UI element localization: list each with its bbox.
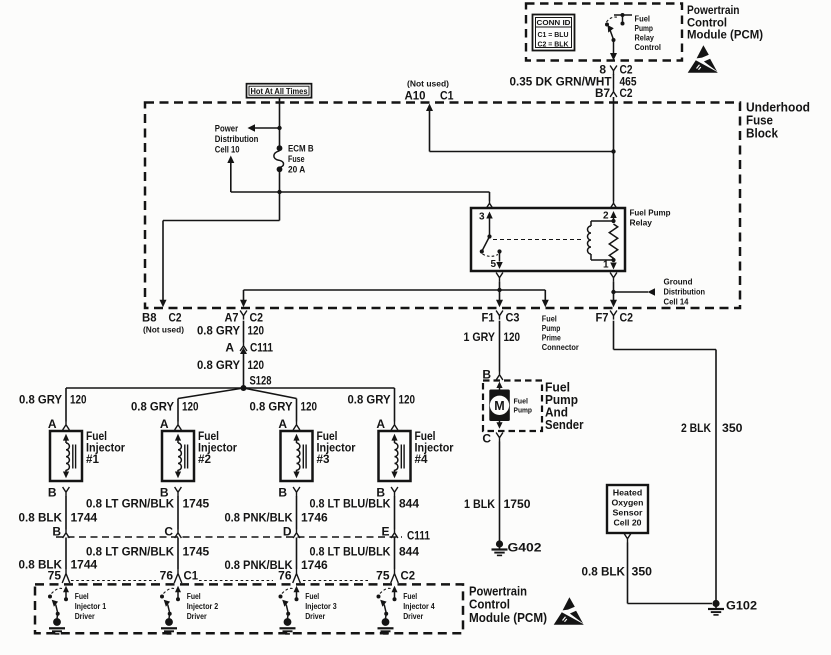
branch wire injector 4: [394, 388, 396, 422]
svg-text:C: C: [482, 432, 491, 446]
connector D at C111: [283, 525, 300, 539]
ground G102: [708, 599, 757, 615]
junction dot ground distribution: [611, 290, 615, 294]
wire pin5 to F1: [499, 282, 501, 301]
svg-text:Pump: Pump: [542, 324, 561, 333]
svg-text:0.8 GRY: 0.8 GRY: [250, 400, 293, 414]
svg-text:Block: Block: [746, 127, 778, 141]
svg-text:Hot At All Times: Hot At All Times: [251, 86, 308, 96]
arrow up to Power Distribution: [227, 156, 234, 193]
svg-text:0.8 LT GRN/BLK: 0.8 LT GRN/BLK: [86, 497, 174, 511]
svg-text:1: 1: [603, 260, 609, 271]
svg-text:Fuel: Fuel: [635, 15, 651, 24]
C111 dashed connector line: [56, 536, 402, 538]
svg-text:C1: C1: [440, 89, 454, 103]
Underhood Fuse Block title: [746, 101, 810, 141]
1 GRY 120 label: [464, 330, 521, 344]
svg-text:Driver: Driver: [187, 612, 207, 621]
Powertrain Control Module (PCM) title bottom: [469, 585, 547, 626]
PCM connector face dotted line: [71, 580, 368, 582]
A7 connector Y: [240, 311, 247, 320]
F1 C3 labels: [482, 311, 520, 325]
svg-text:1745: 1745: [183, 545, 210, 559]
wire A7 to C111: [243, 321, 245, 343]
svg-text:#1: #1: [86, 452, 99, 466]
svg-text:0.8 PNK/BLK: 0.8 PNK/BLK: [225, 511, 293, 525]
svg-text:0.8 GRY: 0.8 GRY: [197, 358, 240, 372]
svg-text:Pump: Pump: [635, 24, 654, 33]
wire from Hot At All Times down: [279, 98, 281, 146]
svg-text:Fuel: Fuel: [187, 592, 201, 601]
connector A injector 3: [278, 417, 300, 431]
Fuel Injector #1 label: [86, 429, 125, 466]
connector B at C111: [52, 525, 69, 539]
relay pin 2 arrow: [610, 211, 617, 223]
svg-text:F7: F7: [596, 311, 609, 325]
splice bus horizontal: [66, 387, 395, 389]
svg-text:(Not used): (Not used): [143, 326, 184, 335]
svg-text:S128: S128: [250, 374, 272, 388]
junction dot A10/B7: [611, 149, 615, 153]
svg-text:C111: C111: [250, 341, 273, 355]
F7 connector Y: [610, 311, 617, 320]
power distribution callout arrow: [248, 124, 280, 132]
svg-text:120: 120: [248, 358, 265, 372]
svg-text:G102: G102: [726, 599, 757, 613]
switched feed line A7 to prime: [244, 290, 546, 301]
Fuel Injector 2 Driver label: [187, 592, 219, 621]
connector B7 C2 labels: [595, 86, 633, 100]
fuel pump relay control driver (switch) in PCM: [605, 13, 632, 61]
svg-text:A: A: [376, 417, 385, 431]
F7 arrow: [610, 300, 617, 308]
svg-text:844: 844: [399, 497, 419, 511]
wire injector 3 to C111: [296, 496, 298, 530]
Heated Oxygen Sensor Cell 20 box: [607, 485, 648, 533]
wire label 0.8 BLK 1744 upper: [19, 511, 98, 525]
B8 C2 (Not used) labels: [142, 313, 184, 335]
wire label 0.8 PNK/BLK 1746 lower: [225, 558, 329, 572]
svg-text:350: 350: [632, 565, 653, 579]
fuel injector box #4: [379, 431, 411, 481]
connector E at C111: [381, 525, 397, 539]
fuel injector 1 driver: [48, 586, 69, 634]
svg-text:0.8 BLK: 0.8 BLK: [19, 511, 63, 525]
svg-text:844: 844: [399, 545, 419, 559]
Fuel Injector #2 label: [198, 429, 237, 466]
svg-text:C2: C2: [620, 311, 634, 325]
svg-text:0.8 GRY: 0.8 GRY: [19, 393, 62, 407]
wire fuse to feed line: [279, 167, 281, 192]
svg-text:Fuel: Fuel: [305, 592, 319, 601]
wire HO2S to ground junction: [628, 543, 713, 604]
connector Y at pin 8: [610, 66, 617, 75]
svg-text:1 GRY: 1 GRY: [464, 330, 496, 344]
A7 arrow: [240, 300, 247, 308]
wire F7 to G102: [614, 321, 717, 601]
relay pin 5 arrow: [496, 252, 503, 270]
wire C111 to S128: [243, 352, 245, 388]
PCM bottom dashed box: [35, 584, 463, 633]
svg-text:Pump: Pump: [514, 406, 533, 415]
svg-text:Fuel: Fuel: [403, 592, 417, 601]
svg-text:Oxygen: Oxygen: [612, 498, 644, 508]
svg-text:A: A: [278, 417, 287, 431]
svg-text:Control: Control: [635, 43, 662, 52]
svg-text:C2 = BLK: C2 = BLK: [538, 39, 570, 48]
pin 75 connector injector 1: [48, 569, 70, 584]
wire label 0.8 LT BLU/BLK 844 upper: [310, 497, 420, 511]
svg-text:Injector 1: Injector 1: [75, 602, 107, 611]
0.8 GRY 120 label lower: [197, 358, 264, 372]
svg-text:Sensor: Sensor: [613, 508, 644, 518]
svg-text:0.8 LT BLU/BLK: 0.8 LT BLU/BLK: [310, 545, 391, 559]
branch wire injector 3: [244, 388, 297, 422]
svg-text:Fuel: Fuel: [514, 397, 529, 406]
junction dot power distribution: [277, 126, 281, 130]
wire injector 1 to C111: [65, 496, 67, 530]
Underhood Fuse Block dashed box: [145, 103, 740, 309]
connector C at C111: [164, 525, 181, 539]
junction dot switched feed: [497, 288, 501, 292]
svg-text:Injector 4: Injector 4: [403, 602, 435, 611]
svg-text:Connector: Connector: [542, 343, 579, 352]
0.8 GRY 120 label injector 1: [19, 393, 87, 407]
relay switch arm pin 3: [480, 212, 493, 254]
wire B7 down to relay pin 2: [613, 97, 615, 201]
wire label 0.8 BLK 1744 lower: [19, 558, 98, 572]
A7 C2 labels: [225, 311, 264, 325]
A10 arrow (not used): [426, 104, 614, 152]
relay coil: [588, 221, 618, 260]
svg-text:Injector 2: Injector 2: [187, 602, 219, 611]
svg-text:C1 = BLU: C1 = BLU: [538, 30, 569, 39]
wire PCM to B7: [613, 74, 615, 89]
connector B injector 3: [278, 486, 300, 500]
svg-text:Control: Control: [469, 598, 510, 612]
svg-text:#4: #4: [415, 452, 428, 466]
connector A injector 4: [376, 417, 398, 431]
svg-text:C111: C111: [407, 529, 430, 543]
0.8 BLK 350 label: [582, 565, 653, 579]
2 BLK 350 label: [681, 421, 743, 435]
svg-text:Module (PCM): Module (PCM): [687, 28, 763, 42]
svg-text:Fuse: Fuse: [288, 154, 305, 164]
wire label 0.8 LT GRN/BLK 1745 upper: [86, 497, 210, 511]
svg-text:ECM B: ECM B: [288, 144, 314, 154]
svg-text:C2: C2: [401, 569, 416, 583]
svg-text:1745: 1745: [183, 497, 210, 511]
svg-text:M: M: [494, 399, 504, 413]
svg-text:#2: #2: [198, 452, 211, 466]
svg-text:C2: C2: [169, 313, 182, 325]
fuel injector box #3: [281, 431, 313, 481]
F1 arrow: [496, 300, 503, 308]
Fuel Pump small label in box: [514, 397, 533, 415]
svg-text:Relay: Relay: [630, 218, 653, 228]
fuel injector 4 driver: [377, 586, 398, 634]
relay switch travel dashed arc: [483, 254, 499, 256]
Fuel Pump Prime Connector label: [542, 315, 579, 353]
svg-text:C3: C3: [506, 311, 520, 325]
svg-text:(Not used): (Not used): [407, 80, 449, 89]
svg-text:A: A: [225, 341, 234, 355]
connector B at pump: [482, 368, 503, 382]
Fuel Pump Relay label: [630, 208, 671, 228]
wire label 0.8 LT GRN/BLK 1745 lower: [86, 545, 210, 559]
svg-text:Injector 3: Injector 3: [305, 602, 337, 611]
Fuel Injector 4 Driver label: [403, 592, 435, 621]
svg-text:Fuel Pump: Fuel Pump: [630, 208, 671, 218]
svg-text:C1: C1: [184, 569, 199, 583]
svg-text:CONN ID: CONN ID: [537, 18, 572, 27]
S128 splice dot: [241, 385, 247, 391]
fuel injector #2 coil symbol: [175, 434, 188, 479]
svg-text:C2: C2: [620, 86, 633, 100]
0.8 GRY 120 label injector 4: [348, 393, 416, 407]
svg-text:Cell 10: Cell 10: [215, 145, 240, 155]
wire injector 2 to C111: [177, 496, 179, 530]
svg-text:1744: 1744: [71, 511, 98, 525]
fuel pump relay box: [471, 208, 625, 271]
connector B injector 4: [376, 486, 398, 500]
svg-text:Module (PCM): Module (PCM): [469, 611, 547, 625]
A C111 in-line connector: [240, 343, 247, 355]
relay control dashed line: [493, 239, 584, 241]
branch wire injector 1: [65, 388, 67, 422]
Fuel Injector 3 Driver label: [305, 592, 337, 621]
svg-text:0.8 LT GRN/BLK: 0.8 LT GRN/BLK: [86, 545, 174, 559]
ESD warning logo bottom: [554, 597, 584, 625]
fuel pump dashed box: [483, 381, 542, 432]
svg-text:1746: 1746: [301, 511, 328, 525]
F1 connector Y: [496, 311, 503, 320]
svg-text:Driver: Driver: [75, 612, 95, 621]
wire C111 to PCM pin injector 1: [65, 538, 67, 570]
relay pin 1 arrow: [610, 258, 617, 270]
prime connector arrow: [542, 300, 549, 308]
svg-text:Fuel: Fuel: [75, 592, 89, 601]
svg-text:Fuel: Fuel: [542, 315, 557, 324]
svg-text:Driver: Driver: [305, 612, 325, 621]
svg-text:Power: Power: [215, 124, 239, 134]
wire C111 to PCM pin injector 3: [296, 538, 298, 570]
branch wire injector 2: [178, 388, 244, 422]
feed line to relay pin 3: [231, 192, 490, 201]
svg-text:A: A: [48, 417, 57, 431]
svg-text:0.8 BLK: 0.8 BLK: [582, 565, 626, 579]
wire pump C to G402: [499, 442, 501, 541]
svg-text:20 A: 20 A: [288, 165, 306, 175]
relay pin 1 bottom connector: [610, 273, 617, 282]
svg-text:C2: C2: [250, 311, 264, 325]
svg-text:B8: B8: [142, 313, 157, 325]
fuel injector 3 driver: [279, 586, 300, 634]
svg-text:120: 120: [248, 324, 265, 338]
A C111 labels: [225, 341, 273, 355]
svg-text:Underhood: Underhood: [746, 101, 810, 115]
svg-text:76: 76: [160, 569, 174, 583]
svg-text:0.8 GRY: 0.8 GRY: [131, 400, 174, 414]
svg-text:A: A: [160, 417, 169, 431]
0.8 GRY 120 label upper: [197, 324, 264, 338]
Fuel Pump And Sender label: [545, 381, 584, 433]
fuel injector 2 driver: [160, 586, 181, 634]
pin 75 connector injector 4: [376, 569, 415, 584]
svg-text:120: 120: [504, 330, 521, 344]
fuel injector #1 coil symbol: [63, 434, 76, 479]
svg-text:Cell 20: Cell 20: [614, 518, 642, 528]
svg-text:120: 120: [182, 400, 199, 414]
svg-text:B7: B7: [595, 86, 610, 100]
svg-text:Prime: Prime: [542, 334, 561, 343]
Fuel Injector #3 label: [317, 429, 356, 466]
wire label 0.8 PNK/BLK 1746 upper: [225, 511, 329, 525]
svg-text:120: 120: [399, 393, 416, 407]
Fuel Pump Relay Control label: [635, 15, 662, 53]
connector B injector 1: [48, 486, 70, 500]
connector A injector 1: [48, 417, 70, 431]
pin 76 connector injector 3: [278, 569, 300, 584]
F7 C2 labels: [596, 311, 634, 325]
CONN ID legend box: [533, 15, 575, 51]
connector below HO2S box: [624, 534, 631, 543]
fuel pump motor: [489, 382, 510, 429]
svg-text:0.8 GRY: 0.8 GRY: [197, 324, 240, 338]
svg-text:B: B: [48, 486, 57, 500]
wire injector 4 to C111: [394, 496, 396, 530]
Power Distribution Cell 10 label: [215, 124, 259, 155]
0.8 GRY 120 label injector 3: [250, 400, 318, 414]
wire label 0.8 LT BLU/BLK 844 lower: [310, 545, 420, 559]
svg-text:2: 2: [603, 211, 609, 222]
svg-text:75: 75: [376, 569, 390, 583]
svg-text:75: 75: [48, 569, 62, 583]
Hot At All Times box: [247, 84, 312, 98]
connector B injector 2: [160, 486, 182, 500]
svg-text:Powertrain: Powertrain: [469, 585, 527, 599]
wire C111 to PCM pin injector 2: [177, 538, 179, 570]
fuel injector box #2: [162, 431, 194, 481]
fuel injector box #1: [50, 431, 82, 481]
svg-text:Heated: Heated: [613, 488, 643, 498]
svg-text:B: B: [278, 486, 287, 500]
svg-text:Distribution: Distribution: [664, 287, 706, 297]
Fuel Injector #4 label: [415, 429, 454, 466]
wire pin1 to F7: [613, 282, 615, 301]
fuel injector #4 coil symbol: [391, 434, 404, 479]
pin 76 connector injector 2: [160, 569, 199, 584]
svg-text:350: 350: [722, 421, 743, 435]
connector at B7: [610, 89, 617, 98]
ECM B Fuse 20 A label: [288, 144, 314, 175]
fuel injector #3 coil symbol: [293, 434, 306, 479]
svg-text:0.8 LT BLU/BLK: 0.8 LT BLU/BLK: [310, 497, 391, 511]
svg-text:Sender: Sender: [545, 418, 584, 432]
connector C below pump: [482, 432, 503, 446]
svg-text:120: 120: [70, 393, 87, 407]
svg-text:A10: A10: [405, 89, 426, 103]
ground distribution callout: [614, 288, 656, 296]
relay switch contact dot pin 5: [497, 249, 501, 253]
relay pin 3 connector: [486, 200, 493, 209]
wire F1 to pump B: [499, 321, 501, 372]
relay pin 2 connector: [610, 200, 617, 209]
svg-text:Ground: Ground: [664, 277, 693, 287]
svg-text:0.8 GRY: 0.8 GRY: [348, 393, 391, 407]
svg-text:1744: 1744: [71, 558, 98, 572]
svg-text:G402: G402: [508, 541, 542, 555]
wire fuse output to B8: [163, 192, 280, 301]
ground G402: [492, 540, 542, 555]
B8 arrow into connector row: [160, 300, 167, 308]
svg-text:2 BLK: 2 BLK: [681, 421, 711, 435]
svg-text:1 BLK: 1 BLK: [464, 497, 495, 511]
wire 465 DK GRN/WHT label: [510, 75, 637, 89]
svg-text:120: 120: [301, 400, 318, 414]
ESD warning logo top: [688, 45, 718, 73]
wire C111 to PCM pin injector 4: [394, 538, 396, 570]
svg-text:5: 5: [490, 259, 496, 270]
relay pin 5 bottom connector: [496, 273, 503, 282]
svg-text:F1: F1: [482, 311, 495, 325]
fuse ECM B 20A: [274, 145, 284, 172]
svg-text:#3: #3: [317, 452, 330, 466]
svg-text:Driver: Driver: [403, 612, 423, 621]
svg-text:Fuse: Fuse: [746, 114, 773, 128]
svg-text:A7: A7: [225, 311, 239, 325]
(Not used) A10 C1 labels: [405, 80, 454, 103]
svg-text:3: 3: [479, 212, 485, 223]
junction dot fuse output: [277, 190, 281, 194]
0.8 GRY 120 label injector 2: [131, 400, 199, 414]
Fuel Injector 1 Driver label: [75, 592, 107, 621]
Powertrain Control Module (PCM) title top: [687, 3, 763, 42]
1 BLK 1750 label: [464, 497, 531, 511]
svg-text:Distribution: Distribution: [215, 134, 259, 144]
connector 8 C2 labels: [599, 63, 632, 77]
Ground Distribution Cell 14 label: [664, 277, 706, 307]
PCM top dashed box: [526, 4, 682, 61]
svg-text:Cell 14: Cell 14: [664, 297, 689, 307]
svg-text:76: 76: [278, 569, 292, 583]
connector A injector 2: [160, 417, 182, 431]
svg-text:1750: 1750: [504, 497, 531, 511]
svg-text:1746: 1746: [301, 558, 328, 572]
svg-text:Relay: Relay: [635, 34, 655, 43]
